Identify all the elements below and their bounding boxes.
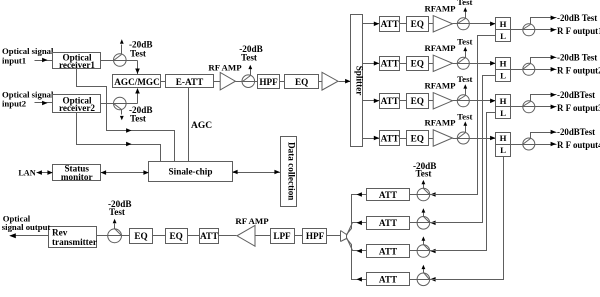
svg-text:L: L	[500, 70, 506, 80]
svg-text:RFAMP: RFAMP	[424, 80, 456, 90]
svg-text:R F output4: R F output4	[557, 140, 600, 150]
svg-text:RFAMP: RFAMP	[424, 43, 456, 53]
svg-text:Sinale-chip: Sinale-chip	[169, 166, 213, 176]
svg-text:-20dB Test: -20dB Test	[557, 52, 597, 62]
svg-text:Test: Test	[130, 113, 147, 123]
svg-text:Test: Test	[457, 0, 472, 7]
svg-text:ATT: ATT	[381, 19, 399, 29]
svg-text:-20dB Test: -20dB Test	[557, 13, 597, 23]
svg-text:LAN: LAN	[18, 168, 35, 177]
svg-text:Rev: Rev	[52, 227, 68, 237]
svg-text:ATT: ATT	[379, 190, 397, 200]
svg-text:Test: Test	[457, 111, 472, 121]
svg-text:Test: Test	[416, 169, 433, 179]
svg-text:Test: Test	[130, 48, 147, 58]
svg-text:-20dBTest: -20dBTest	[557, 127, 595, 137]
svg-text:ATT: ATT	[381, 96, 399, 106]
svg-text:L: L	[500, 108, 506, 118]
svg-text:receiver2: receiver2	[59, 103, 95, 113]
svg-text:EQ: EQ	[411, 133, 424, 143]
svg-text:H: H	[500, 19, 507, 29]
svg-text:monitor: monitor	[61, 172, 93, 182]
svg-text:L: L	[500, 31, 506, 41]
svg-text:AGC: AGC	[191, 121, 212, 131]
svg-text:EQ: EQ	[169, 231, 182, 241]
svg-text:Test: Test	[457, 74, 472, 84]
svg-text:ATT: ATT	[379, 246, 397, 256]
svg-text:R F output2: R F output2	[557, 65, 600, 75]
svg-text:RF AMP: RF AMP	[208, 62, 242, 72]
svg-text:E-ATT: E-ATT	[176, 77, 203, 87]
svg-text:Splitter: Splitter	[355, 66, 365, 96]
svg-text:RF AMP: RF AMP	[235, 216, 269, 226]
svg-text:AGC/MGC: AGC/MGC	[114, 77, 159, 87]
svg-text:R F output3: R F output3	[557, 103, 600, 113]
svg-text:HPF: HPF	[306, 231, 325, 241]
svg-text:receiver1: receiver1	[59, 60, 95, 70]
svg-text:ATT: ATT	[381, 133, 399, 143]
svg-text:Test: Test	[109, 207, 126, 217]
svg-text:LPF: LPF	[273, 231, 291, 241]
svg-text:L: L	[500, 145, 506, 155]
svg-text:ATT: ATT	[379, 218, 397, 228]
svg-text:EQ: EQ	[411, 96, 424, 106]
svg-text:-20dBTest: -20dBTest	[557, 90, 595, 100]
svg-text:ATT: ATT	[381, 59, 399, 69]
svg-text:ATT: ATT	[379, 275, 397, 285]
svg-text:ATT: ATT	[200, 231, 218, 241]
svg-text:H: H	[500, 96, 507, 106]
svg-text:EQ: EQ	[134, 231, 147, 241]
svg-text:H: H	[500, 133, 507, 143]
svg-text:transmitter: transmitter	[52, 237, 97, 247]
svg-text:EQ: EQ	[411, 19, 424, 29]
svg-text:HPF: HPF	[259, 77, 278, 87]
svg-text:Data collection: Data collection	[286, 142, 296, 200]
svg-text:EQ: EQ	[411, 59, 424, 69]
svg-text:Test: Test	[241, 52, 258, 62]
svg-text:Test: Test	[457, 37, 472, 47]
svg-text:input2: input2	[2, 98, 26, 108]
svg-text:R F output1: R F output1	[557, 26, 600, 36]
svg-text:EQ: EQ	[295, 77, 308, 87]
svg-text:H: H	[500, 58, 507, 68]
svg-text:input1: input1	[2, 55, 26, 65]
svg-text:RFAMP: RFAMP	[424, 3, 456, 13]
svg-text:RFAMP: RFAMP	[424, 118, 456, 128]
svg-text:signal output: signal output	[2, 222, 51, 232]
